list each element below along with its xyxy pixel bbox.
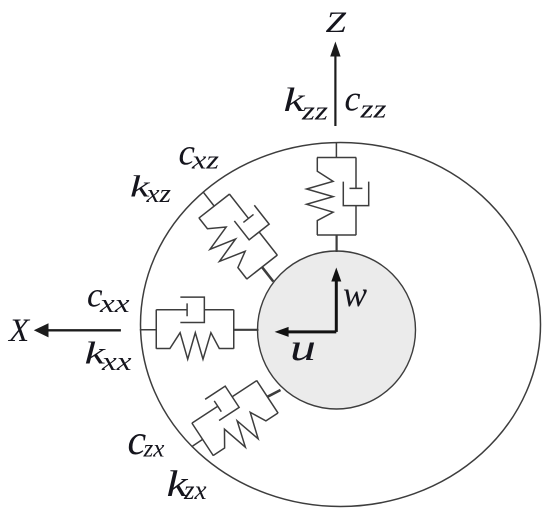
svg-text:xx: xx	[101, 347, 132, 376]
svg-text:zz: zz	[301, 97, 328, 126]
wire: element Kxz to journal	[262, 267, 273, 281]
wire: outer circle to element Kzz	[335, 143, 337, 158]
spring Kxx	[156, 333, 234, 360]
svg-text:w: w	[343, 274, 367, 314]
wire: outer circle to element Kxx	[140, 329, 157, 331]
damper Cxz	[219, 186, 287, 263]
frame bars	[199, 194, 278, 279]
svg-text:u: u	[290, 327, 316, 369]
wire: element Kzz to journal	[336, 235, 338, 252]
svg-text:zz: zz	[359, 95, 386, 124]
w displacement arrow	[335, 278, 338, 332]
spring-damper element kxz/cxz (upper-left diagonal)	[191, 186, 288, 285]
X axis arrow	[46, 329, 121, 331]
bearing housing outer circle	[141, 143, 541, 507]
damper Cxx	[156, 297, 234, 322]
frame bars	[156, 310, 234, 349]
svg-text:xz: xz	[191, 146, 219, 175]
spring Kzx	[205, 400, 284, 465]
spring Kzz	[307, 158, 334, 236]
wire: element Kzx to journal	[267, 390, 280, 397]
spring-damper element kzz/czz (vertical, top)	[307, 158, 369, 236]
frame bars	[192, 380, 278, 455]
spring-damper element kzx/czx (lower-left diagonal)	[185, 370, 284, 464]
wire: outer circle to element Kxz	[203, 192, 214, 206]
svg-text:xx: xx	[99, 289, 130, 318]
damper Czx	[185, 370, 264, 434]
svg-text:xz: xz	[145, 179, 171, 208]
u displacement arrow	[286, 330, 336, 333]
wire: outer circle to element Kzx	[192, 439, 203, 446]
svg-text:X: X	[7, 313, 31, 349]
damper Czz	[343, 158, 368, 236]
svg-text:zx: zx	[143, 436, 165, 463]
svg-text:Z: Z	[326, 7, 347, 39]
journal inner circle	[258, 251, 416, 409]
wire: element Kxx to journal	[234, 329, 259, 331]
svg-text:c: c	[345, 78, 361, 118]
frame bars	[317, 158, 356, 236]
Z axis arrow	[334, 50, 336, 126]
spring Kxz	[191, 208, 260, 285]
spring-damper element kxx/cxx (horizontal, left)	[156, 297, 234, 359]
svg-text:zx: zx	[183, 475, 207, 505]
